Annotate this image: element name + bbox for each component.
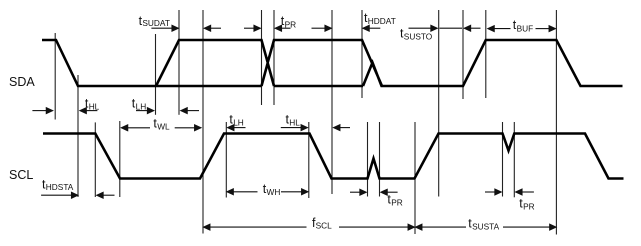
tBUF right head [549,26,555,32]
arrow left at L95 [103,194,115,196]
tSUSTA right head at L557 [550,224,556,230]
arrows [32,25,556,230]
svg-text:HDSTA: HDSTA [46,182,74,192]
arrow left at L203 [210,27,221,29]
svg-text:WH: WH [267,187,281,197]
arrow right at L55 [32,110,46,112]
svg-text:LH: LH [233,117,244,127]
vline L514 [513,122,515,197]
arrow left at L274 [281,27,291,29]
tWL right head at L203 [195,125,201,131]
vline L179 [178,10,180,115]
vline L120 [119,121,121,197]
vline L332 [331,10,333,194]
svg-text:LH: LH [136,102,147,112]
svg-text:SUSTO: SUSTO [404,32,433,42]
arrow right at L502 [485,191,496,193]
arrow right at L261 [244,27,255,29]
svg-text:SDA: SDA [9,75,35,89]
arrow right at L332 [312,27,327,29]
vline L55 [54,33,56,120]
fSCL left head at L203 [204,224,210,230]
svg-text:HL: HL [289,117,300,127]
arrow right at L309 [281,127,301,129]
arrow right at L367 [350,191,361,193]
vline L415 [414,122,416,234]
SDA waveform [42,40,623,86]
vline L379 [379,122,381,197]
svg-text:BUF: BUF [517,23,534,33]
vline L486 [485,10,487,98]
svg-text:SCL: SCL [316,221,333,231]
arrow left at L463 [470,27,481,29]
SCL waveform [43,134,624,179]
vline L156 [155,34,157,115]
arrow left at L226 [233,127,246,129]
vline L557 [555,10,557,235]
vline L95 [94,122,96,197]
svg-text:SUSTA: SUSTA [472,221,500,231]
svg-text:PR: PR [391,198,403,208]
svg-text:HL: HL [89,102,100,112]
arrow right at L156 [136,110,147,112]
vline L502 [502,122,504,197]
tSUDAT arrow [151,27,172,29]
tHDSTA arrow right at L78 [41,194,71,196]
arrow left at L362 [369,27,380,29]
arrow left at L332 [339,127,351,129]
svg-text:PR: PR [523,201,535,211]
tSUSTO arrow right at L439 [409,27,432,29]
arrow left at L514 [522,191,534,193]
plain line between L439 and L463 [440,27,463,29]
arrow left at L179 [187,110,199,112]
arrow left at L379 [387,191,398,193]
arrow left at L78 [86,110,97,112]
vline L78 [77,75,79,197]
tBUF left head [488,26,494,32]
vline L261 [261,10,263,105]
vline L439 [438,10,440,197]
svg-text:SUDAT: SUDAT [142,18,170,28]
vline L362 [361,10,363,98]
tWH left head at L226 [227,189,233,195]
vline L463 [462,10,464,99]
fSCL right head at L415 [408,224,414,230]
tSUSTA left head at L415 [416,224,422,230]
svg-text:WL: WL [157,122,170,132]
tWH right head at L309 [302,189,308,195]
svg-text:HDDAT: HDDAT [368,16,396,26]
vline L309 [308,122,310,198]
svg-text:SCL: SCL [9,168,33,182]
vline L203 [202,10,204,234]
tWL left head at L120 [121,125,127,131]
svg-text:PR: PR [285,19,297,29]
vline L226 [225,122,227,198]
vline L274 [273,10,275,105]
vline L367 [367,122,369,197]
